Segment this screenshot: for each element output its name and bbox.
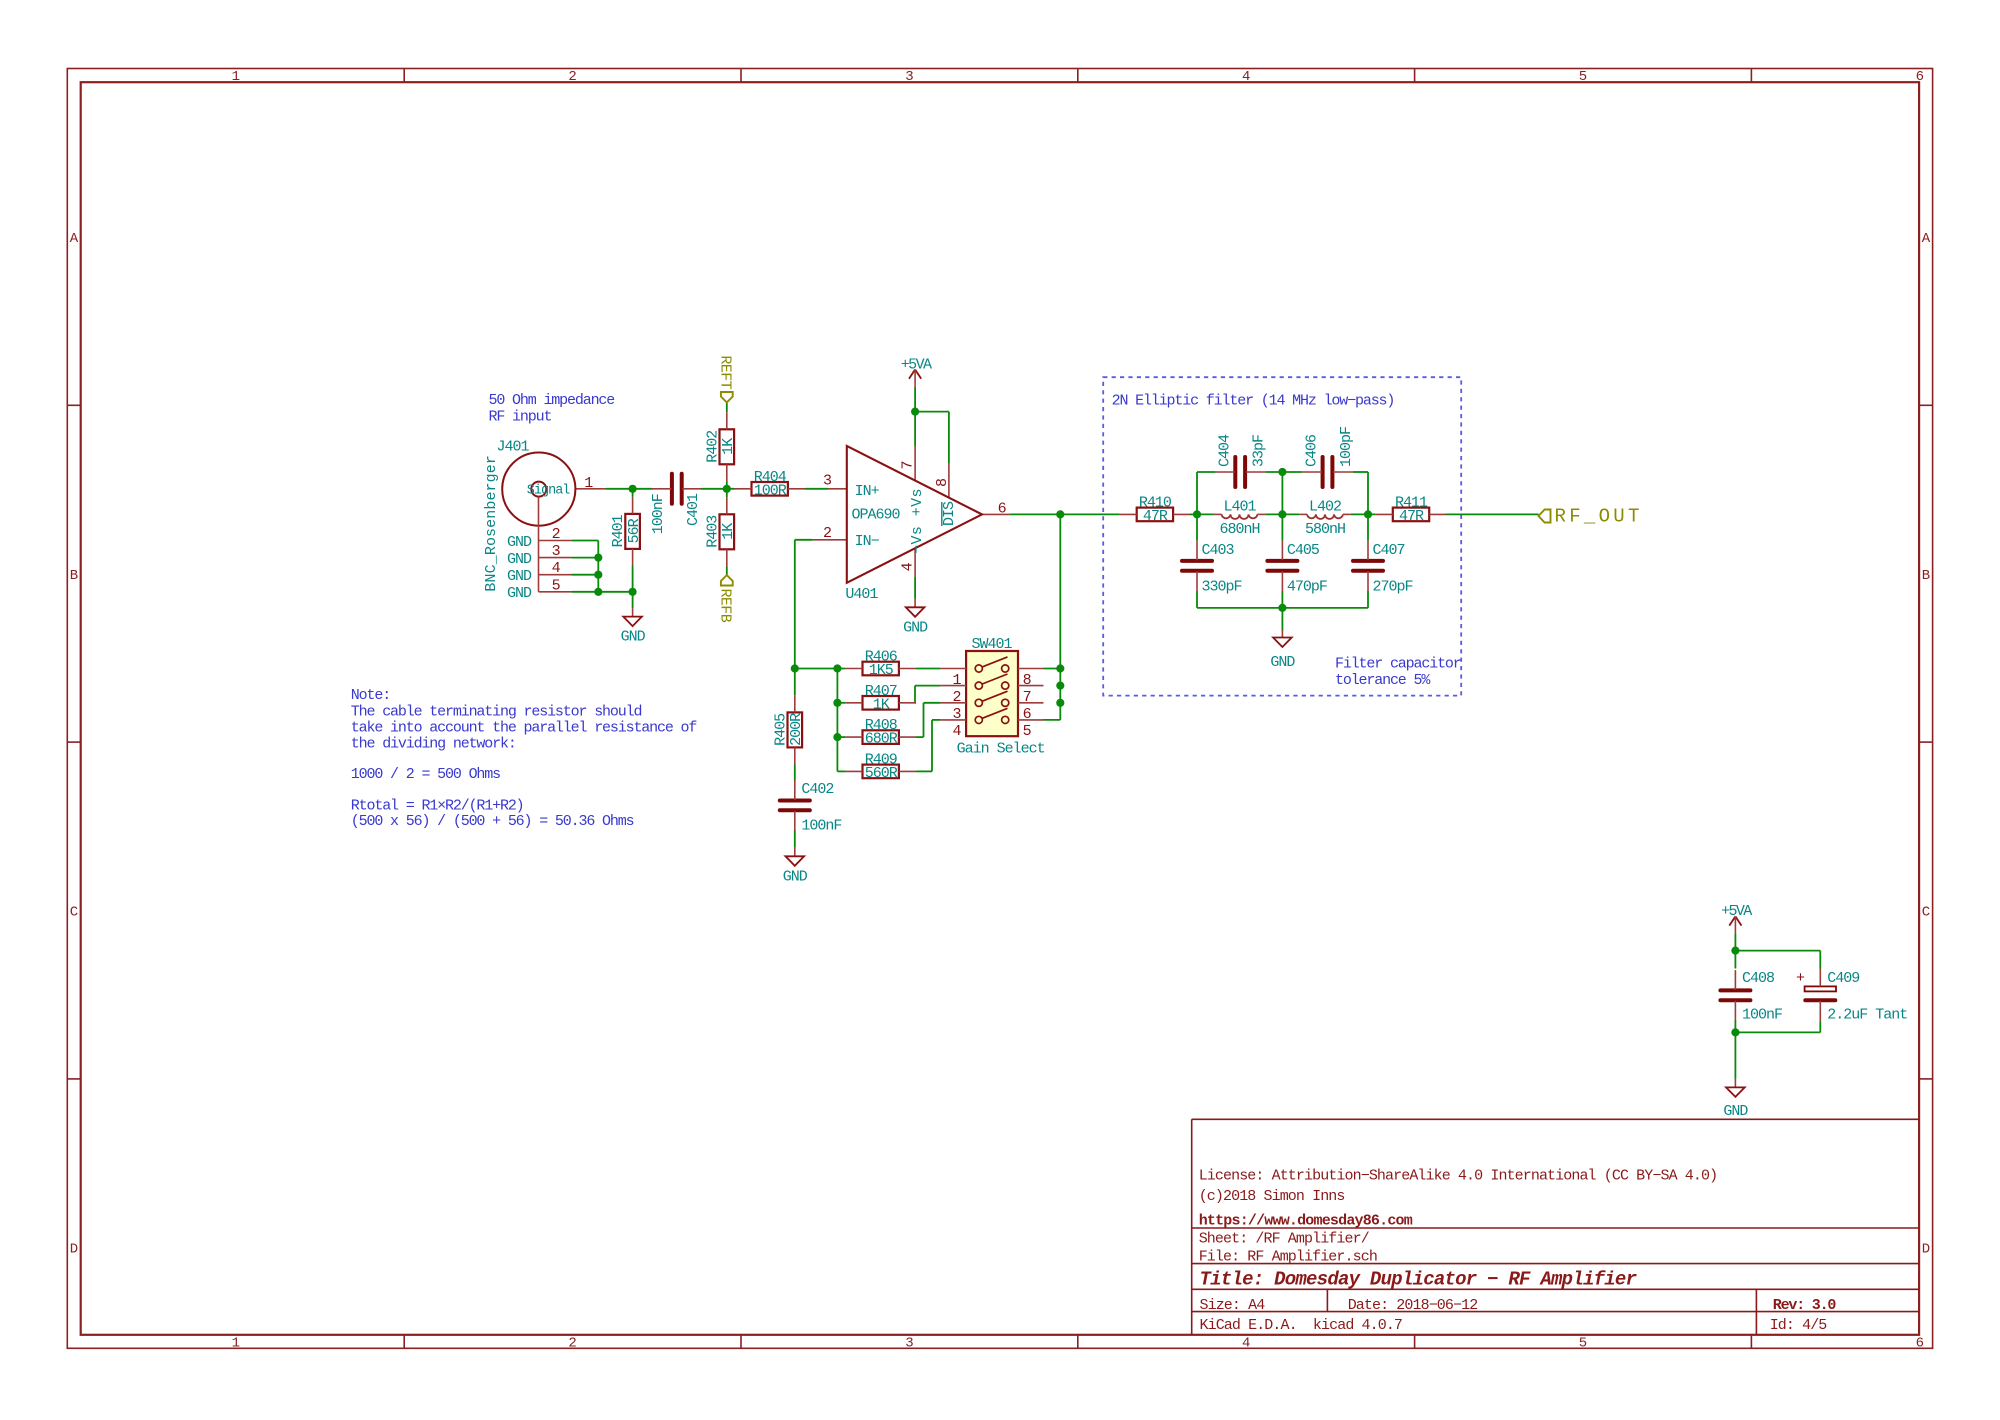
svg-text:2: 2 (552, 526, 560, 543)
svg-text:1K5: 1K5 (869, 662, 894, 679)
svg-text:4: 4 (1242, 1335, 1250, 1351)
svg-text:L402: L402 (1309, 499, 1341, 516)
svg-text:OPA690: OPA690 (852, 507, 901, 524)
svg-text:3: 3 (823, 473, 832, 490)
svg-text:IN−: IN− (855, 533, 880, 550)
svg-text:REFT: REFT (716, 355, 733, 389)
svg-text:200R: 200R (788, 713, 805, 746)
svg-text:License: Attribution−ShareAlik: License: Attribution−ShareAlike 4.0 Inte… (1199, 1168, 1718, 1185)
svg-text:KiCad E.D.A. kicad 4.0.7: KiCad E.D.A. kicad 4.0.7 (1200, 1317, 1403, 1334)
svg-text:−Vs +Vs: −Vs +Vs (909, 488, 926, 554)
svg-text:680nH: 680nH (1219, 521, 1259, 538)
svg-text:The cable terminating resistor: The cable terminating resistor should (351, 704, 642, 721)
svg-text:Signal: Signal (527, 483, 571, 498)
svg-text:Id: 4/5: Id: 4/5 (1770, 1317, 1828, 1334)
svg-text:C405: C405 (1287, 542, 1320, 559)
svg-text:56R: 56R (626, 518, 643, 543)
svg-text:C404: C404 (1216, 434, 1233, 467)
svg-text:2.2uF Tant: 2.2uF Tant (1827, 1007, 1907, 1024)
svg-text:GND: GND (1723, 1103, 1748, 1120)
svg-text:7: 7 (900, 461, 917, 469)
svg-text:47R: 47R (1399, 508, 1424, 525)
svg-text:Note:: Note: (351, 687, 390, 704)
svg-text:3: 3 (905, 1335, 913, 1351)
svg-text:D: D (70, 1242, 78, 1258)
svg-text:8: 8 (934, 478, 951, 487)
svg-text:100nF: 100nF (650, 494, 667, 534)
svg-text:A: A (70, 231, 79, 247)
svg-text:2: 2 (568, 1335, 576, 1351)
svg-text:4: 4 (1242, 69, 1250, 85)
svg-text:6: 6 (998, 501, 1007, 518)
svg-text:Size: A4: Size: A4 (1200, 1297, 1266, 1314)
svg-text:BNC_Rosenberger: BNC_Rosenberger (483, 455, 500, 592)
svg-text:GND: GND (507, 568, 532, 585)
svg-text:Gain Select: Gain Select (957, 740, 1045, 757)
svg-text:5: 5 (1023, 723, 1032, 740)
svg-text:take into account the parallel: take into account the parallel resistanc… (351, 720, 698, 737)
svg-text:Date: 2018−06−12: Date: 2018−06−12 (1348, 1297, 1478, 1314)
svg-text:U401: U401 (845, 586, 878, 603)
svg-text:1K: 1K (720, 438, 737, 455)
svg-text:Title: Domesday Duplicator − R: Title: Domesday Duplicator − RF Amplifie… (1200, 1269, 1638, 1291)
svg-text:50 Ohm impedance: 50 Ohm impedance (489, 392, 616, 409)
svg-text:File: RF Amplifier.sch: File: RF Amplifier.sch (1199, 1249, 1377, 1266)
svg-text:3: 3 (552, 543, 561, 560)
svg-text:2: 2 (823, 525, 831, 542)
svg-text:C: C (70, 905, 78, 921)
svg-text:C406: C406 (1304, 434, 1321, 467)
svg-text:GND: GND (1270, 654, 1295, 671)
svg-text:270pF: 270pF (1373, 579, 1413, 596)
svg-text:4: 4 (900, 562, 917, 571)
svg-text:33pF: 33pF (1251, 435, 1268, 467)
svg-text:470pF: 470pF (1287, 579, 1327, 596)
svg-text:RF_OUT: RF_OUT (1555, 506, 1643, 528)
svg-text:100pF: 100pF (1338, 427, 1355, 467)
svg-text:5: 5 (1579, 69, 1587, 85)
svg-text:(500 x 56) / (500 + 56) = 50.3: (500 x 56) / (500 + 56) = 50.36 Ohms (351, 813, 634, 830)
svg-text:580nH: 580nH (1305, 521, 1345, 538)
svg-text:1K: 1K (720, 523, 737, 540)
svg-text:GND: GND (621, 629, 646, 646)
svg-text:https://www.domesday86.com: https://www.domesday86.com (1199, 1212, 1413, 1229)
svg-text:3: 3 (905, 69, 913, 85)
svg-text:100nF: 100nF (801, 818, 841, 835)
svg-text:C402: C402 (801, 781, 833, 798)
svg-text:1000 / 2 = 500 Ohms: 1000 / 2 = 500 Ohms (351, 766, 500, 783)
svg-text:100R: 100R (754, 482, 787, 499)
svg-text:680R: 680R (865, 731, 898, 748)
svg-text:1: 1 (232, 1335, 240, 1351)
svg-text:2N Elliptic filter (14 MHz low: 2N Elliptic filter (14 MHz low−pass) (1112, 392, 1395, 409)
svg-text:Rev: 3.0: Rev: 3.0 (1773, 1297, 1837, 1314)
svg-text:DIS: DIS (941, 501, 958, 526)
svg-text:6: 6 (1916, 1335, 1924, 1351)
svg-text:J401: J401 (497, 439, 530, 456)
svg-text:GND: GND (507, 585, 532, 602)
svg-text:1: 1 (584, 475, 593, 492)
svg-text:B: B (70, 568, 78, 584)
svg-text:R402: R402 (704, 431, 721, 463)
svg-text:Filter capacitor: Filter capacitor (1335, 656, 1461, 673)
svg-text:GND: GND (783, 868, 808, 885)
svg-text:GND: GND (507, 551, 532, 568)
svg-text:C407: C407 (1373, 542, 1405, 559)
svg-text:1K: 1K (873, 696, 890, 713)
svg-text:R401: R401 (610, 514, 627, 547)
svg-text:RF input: RF input (489, 409, 552, 426)
svg-text:the dividing network:: the dividing network: (351, 735, 516, 752)
svg-text:GND: GND (507, 534, 532, 551)
svg-text:SW401: SW401 (972, 636, 1013, 653)
svg-text:C403: C403 (1202, 542, 1235, 559)
svg-text:2: 2 (568, 69, 576, 85)
svg-text:47R: 47R (1143, 508, 1168, 525)
svg-text:A: A (1922, 231, 1931, 247)
svg-text:C409: C409 (1827, 970, 1859, 987)
svg-text:GND: GND (903, 619, 928, 636)
svg-text:+: + (1796, 970, 1805, 987)
svg-text:B: B (1922, 568, 1930, 584)
svg-text:1: 1 (232, 69, 240, 85)
svg-text:5: 5 (552, 577, 561, 594)
svg-text:C: C (1922, 905, 1930, 921)
svg-text:Rtotal = R1×R2/(R1+R2): Rtotal = R1×R2/(R1+R2) (351, 798, 524, 815)
svg-text:4: 4 (952, 723, 961, 740)
svg-text:Sheet: /RF Amplifier/: Sheet: /RF Amplifier/ (1199, 1231, 1370, 1248)
svg-text:D: D (1922, 1242, 1930, 1258)
svg-text:L401: L401 (1223, 499, 1256, 516)
svg-text:C401: C401 (685, 493, 702, 526)
svg-text:REFB: REFB (716, 589, 733, 623)
svg-text:6: 6 (1916, 69, 1924, 85)
svg-text:100nF: 100nF (1742, 1007, 1782, 1024)
svg-text:R405: R405 (772, 713, 789, 746)
svg-text:R403: R403 (704, 515, 721, 548)
svg-text:560R: 560R (865, 765, 898, 782)
svg-text:tolerance 5%: tolerance 5% (1335, 672, 1431, 689)
svg-text:5: 5 (1579, 1335, 1587, 1351)
svg-text:330pF: 330pF (1202, 579, 1242, 596)
svg-text:4: 4 (552, 560, 561, 577)
svg-text:IN+: IN+ (855, 483, 880, 500)
svg-text:(c)2018 Simon Inns: (c)2018 Simon Inns (1199, 1188, 1345, 1205)
svg-text:C408: C408 (1742, 970, 1775, 987)
